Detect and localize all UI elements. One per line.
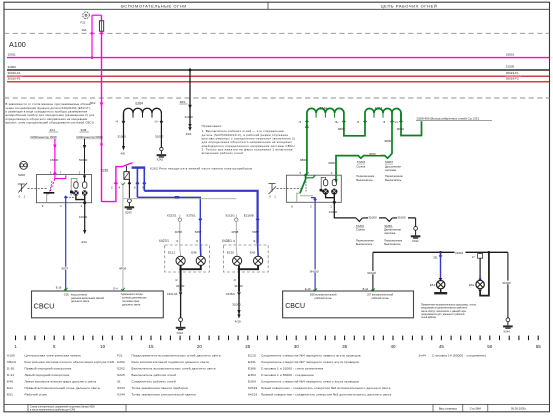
svg-text:31000: 31000	[176, 284, 185, 288]
svg-text:E51: E51	[430, 283, 436, 287]
svg-text:CBCU: CBCU	[34, 302, 55, 311]
svg-text:заслонка: заслонка	[384, 232, 396, 235]
svg-text:10A: 10A	[82, 28, 87, 32]
svg-text:Выключатель: Выключатель	[385, 178, 402, 182]
svg-text:Переключение: Переключение	[356, 239, 374, 243]
svg-text:30: 30	[294, 344, 300, 349]
svg-text:выключ. этим определяющий обор: выключ. этим определяющий оборудования с…	[6, 121, 94, 125]
ground tail X242 right	[415, 218, 417, 227]
svg-text:331: 331	[433, 255, 438, 259]
svg-text:Рабочий огонь: Рабочий огонь	[25, 393, 48, 397]
dashed separator top	[4, 32, 550, 34]
S225 blue output pin3	[311, 198, 315, 291]
junction dots	[90, 32, 94, 36]
wire 15000 (magenta)	[54, 139, 56, 174]
ground X242 lamp1	[176, 327, 186, 329]
svg-text:X331.6A: X331.6A	[167, 292, 178, 296]
svg-text:X243: X243	[117, 386, 125, 390]
svg-text:тепловых фар: тепловых фар	[122, 299, 140, 303]
svg-text:/5+: /5+	[335, 120, 339, 124]
bus 30019-F2 (red)	[7, 81, 550, 83]
lamp E51 right branch	[478, 254, 483, 259]
svg-text:15: 15	[148, 344, 154, 349]
svg-text:S186/1: S186/1	[384, 224, 393, 228]
bus 34000 (black)	[7, 69, 550, 71]
svg-text:рабочий огонь: рабочий огонь	[372, 296, 390, 300]
bottom title box	[28, 404, 126, 411]
svg-text:Стр.5М4: Стр.5М4	[470, 407, 482, 411]
svg-text:E08 вспомогательный: E08 вспомогательный	[310, 292, 337, 296]
S202 lamp returns	[76, 196, 85, 203]
svg-text:X243: X243	[125, 211, 132, 215]
svg-text:Соединитель отверстий №4 перед: Соединитель отверстий №4 переднего левог…	[261, 380, 359, 384]
svg-text:E215: E215	[248, 353, 256, 357]
fuse F21 symbol	[83, 12, 90, 19]
E264 pin /4 wire 31000	[123, 113, 125, 147]
svg-text:X244: X244	[503, 329, 510, 333]
fuse body	[99, 21, 103, 31]
svg-text:20: 20	[197, 344, 203, 349]
E644 pin /5+ link to E364 /6	[344, 121, 365, 136]
svg-text:10: 10	[100, 344, 106, 349]
svg-text:дальнего света: дальнего света	[71, 300, 90, 303]
svg-text:Стыковка 1 и 31000 - точка заз: Стыковка 1 и 31000 - точка заземления	[261, 367, 323, 371]
svg-text:9800: 9800	[338, 127, 345, 131]
wire 31000 from bus 34000 via 60/1	[189, 70, 191, 128]
switch S202 icon	[20, 161, 28, 169]
svg-text:G05: G05	[64, 292, 69, 296]
svg-text:X428/1: X428/1	[222, 239, 232, 243]
connector notch S186/1	[386, 218, 396, 222]
svg-text:E36X: E36X	[248, 380, 256, 384]
svg-text:Соединитель отверстия №4 перед: Соединитель отверстия №4 переднего право…	[261, 353, 361, 357]
svg-text:E51: E51	[7, 393, 13, 397]
svg-text:31000: 31000	[368, 216, 377, 220]
svg-text:E130: E130	[227, 250, 234, 254]
svg-text:Выключатель: Выключатель	[356, 178, 373, 182]
svg-text:9800: 9800	[300, 158, 307, 162]
svg-text:Переключение: Переключение	[384, 239, 402, 243]
svg-text:E41: E41	[7, 386, 13, 390]
svg-text:Соединитель отверстия №7 перед: Соединитель отверстия №7 переднего левог…	[261, 360, 359, 364]
svg-text:/2+: /2+	[394, 120, 398, 124]
wire magenta fuse top	[92, 15, 102, 201]
svg-text:9000: 9000	[328, 161, 335, 165]
svg-text:15001: 15001	[506, 52, 515, 56]
svg-text:31000: 31000	[185, 115, 194, 119]
connector notch S726/1	[356, 218, 366, 222]
svg-text:X242: X242	[412, 239, 419, 243]
svg-text:9800: 9800	[385, 139, 392, 143]
svg-text:X242: X242	[157, 157, 164, 161]
svg-text:4/19: 4/19	[235, 320, 241, 324]
svg-text:E366: E366	[248, 367, 256, 371]
svg-text:CBCU: CBCU	[285, 303, 305, 310]
svg-text:9K100: 9K100	[367, 271, 376, 275]
svg-text:Центральная электрическая пане: Центральная электрическая панель	[25, 353, 82, 357]
ground X243	[125, 206, 135, 208]
S225 pilot lamp 1	[324, 180, 328, 186]
svg-text:40: 40	[390, 344, 396, 349]
svg-text:E46: E46	[191, 250, 197, 254]
svg-text:A100: A100	[9, 40, 26, 49]
svg-text:31: 31	[117, 380, 121, 384]
svg-text:4/8: 4/8	[121, 152, 126, 156]
svg-text:X242: X242	[177, 331, 184, 335]
svg-text:Дроссельная: Дроссельная	[385, 165, 401, 169]
svg-text:4P08: 4P08	[231, 230, 238, 234]
svg-text:S225: S225	[117, 373, 125, 377]
svg-text:K262: K262	[117, 360, 125, 364]
svg-text:4P08: 4P08	[119, 267, 126, 271]
svg-text:3/11: 3/11	[50, 128, 56, 132]
svg-text:35: 35	[342, 344, 348, 349]
svg-text:огней кабины: огней кабины	[421, 316, 436, 319]
note text block left	[6, 102, 95, 124]
svg-text:S726/2: S726/2	[357, 160, 366, 164]
E644 pin /3 wire 9800 to S225	[306, 121, 308, 175]
wire blue upper to E216/B	[144, 191, 257, 244]
svg-text:дальнего света: дальнего света	[122, 303, 141, 306]
svg-text:Двигательная: Двигательная	[384, 228, 401, 232]
svg-text:E-16: E-16	[305, 287, 311, 291]
svg-text:A315/6: A315/6	[226, 292, 235, 296]
svg-text:X215/1: X215/1	[225, 213, 235, 217]
note text block primechaniya	[202, 124, 296, 155]
wire 31000 to ground X244	[507, 252, 509, 317]
S202 internal blue node	[64, 195, 68, 199]
S202 box	[37, 175, 92, 203]
wire arrow marker	[100, 144, 103, 149]
svg-text:Выключатель: Выключатель	[356, 242, 373, 246]
svg-text:S202: S202	[18, 173, 25, 177]
dashed separator mid	[4, 97, 550, 99]
wire blue lower to X275/1	[137, 197, 200, 244]
svg-text:К264Коннектор 50000: К264Коннектор 50000	[77, 135, 104, 139]
lamp E51 #2	[478, 279, 482, 281]
svg-text:15000: 15000	[50, 158, 59, 162]
svg-text:31000: 31000	[232, 303, 241, 307]
svg-text:31000: 31000	[155, 134, 164, 138]
X427 ground tail	[179, 292, 183, 296]
bus 15011 (magenta)	[7, 57, 550, 59]
svg-text:E216/B: E216/B	[244, 213, 254, 217]
svg-text:S726/1: S726/1	[356, 224, 365, 228]
svg-text:Предохранитель вспомогательных: Предохранитель вспомогательных огней дал…	[132, 353, 221, 357]
svg-text:заслонка: заслонка	[385, 169, 397, 172]
svg-text:рабочий огонь: рабочий огонь	[315, 296, 333, 300]
svg-text:Точка заземления электрической: Точка заземления электрической панели	[132, 393, 197, 397]
svg-text:E264: E264	[136, 101, 144, 105]
K262 magenta feed loop	[102, 163, 133, 202]
S202 pilot lamp 2	[83, 182, 87, 189]
svg-text:X244: X244	[117, 393, 125, 397]
svg-text:30019-F1: 30019-F1	[8, 71, 21, 75]
svg-text:45: 45	[439, 344, 445, 349]
svg-text:разъема включения свечей: разъема включения свечей	[71, 296, 105, 300]
svg-text:X230/4: X230/4	[455, 251, 464, 255]
svg-text:31000: 31000	[397, 216, 406, 220]
svg-text:X275/1: X275/1	[186, 213, 196, 217]
E364 pin /2+ wire to net ref	[401, 121, 422, 136]
S225 diode mark	[320, 189, 323, 192]
svg-text:9H100: 9H100	[310, 269, 319, 273]
S202 arm to pin 9	[47, 194, 50, 203]
svg-text:Стыковка 14 (50000 - соединени: Стыковка 14 (50000 - соединение)	[432, 353, 486, 357]
svg-text:Стыковка 1 и 50000 - соединени: Стыковка 1 и 50000 - соединение	[261, 373, 314, 377]
svg-text:Вид страницы: Вид страницы	[439, 407, 457, 411]
S202 contact arm (magenta)	[55, 174, 66, 179]
svg-text:E364: E364	[248, 373, 256, 377]
svg-text:D-4: D-4	[113, 286, 118, 290]
svg-text:Левая вспомогательная фара дал: Левая вспомогательная фара дальнего свет…	[25, 380, 97, 384]
svg-text:9K00: 9K00	[397, 127, 404, 131]
S225 pilot lamp 2	[332, 180, 336, 186]
svg-text:Выключатель рабочих огней: Выключатель рабочих огней	[132, 373, 177, 377]
svg-text:64219: 64219	[248, 393, 257, 397]
svg-text:05.09.2005г.: 05.09.2005г.	[511, 407, 527, 411]
S202 pilot lamp 1	[74, 182, 78, 189]
svg-text:включение рабочих огней: включение рабочих огней	[202, 151, 244, 155]
svg-text:D-21: D-21	[7, 373, 14, 377]
S202 lamp feed hook	[71, 178, 77, 195]
svg-text:E46: E46	[7, 380, 13, 384]
svg-text:Реле вспомогательной подсветки: Реле вспомогательной подсветки дальнего …	[132, 360, 210, 364]
svg-text:50: 50	[487, 344, 493, 349]
switch S225 box	[286, 175, 341, 202]
svg-text:Сдвоенного входа: Сдвоенного входа	[121, 292, 144, 296]
svg-text:4/16: 4/16	[186, 132, 192, 136]
legend	[7, 353, 486, 396]
S202 feed 50000 into box	[84, 175, 86, 182]
svg-text:S186/7: S186/7	[385, 160, 394, 164]
svg-text:31000: 31000	[79, 215, 88, 219]
svg-text:ЦЕПЬ РАБОЧИХ ОГНЕЙ: ЦЕПЬ РАБОЧИХ ОГНЕЙ	[381, 3, 438, 8]
svg-text:X323/2: X323/2	[167, 213, 177, 217]
svg-text:50000: 50000	[79, 158, 88, 162]
svg-text:J07 вспомогательный: J07 вспомогательный	[367, 292, 394, 296]
S225 lamp returns	[326, 194, 335, 202]
K262 coil ground wire	[128, 179, 130, 198]
svg-text:D-26: D-26	[7, 367, 14, 371]
svg-text:15011: 15011	[8, 52, 16, 56]
svg-text:F21: F21	[81, 21, 86, 25]
svg-text:4P08: 4P08	[175, 230, 182, 234]
note text block right	[421, 303, 476, 319]
svg-text:31000: 31000	[506, 64, 515, 68]
svg-text:31000: 31000	[234, 284, 243, 288]
K262 coil	[125, 166, 127, 172]
svg-text:A100: A100	[7, 353, 15, 357]
svg-text:К262Коннектор 15000: К262Коннектор 15000	[31, 135, 58, 139]
bus 30019-F1 (red)	[7, 75, 550, 77]
svg-text:X427/1: X427/1	[159, 239, 169, 243]
svg-text:30019-F2: 30019-F2	[8, 77, 21, 81]
wire 31000 work lamp run	[373, 251, 508, 253]
K262 contact output (blue)	[132, 166, 146, 168]
svg-text:ВСПОМОГАТЕЛЬНЫЕ ОГНИ: ВСПОМОГАТЕЛЬНЫЕ ОГНИ	[121, 3, 187, 8]
S202 diode mark	[70, 191, 73, 194]
S225 green contact arm	[300, 175, 306, 193]
control unit CBCU box 1	[32, 291, 164, 318]
wire 50000 (black)	[84, 139, 86, 174]
E364 pin /3 wire to S225 pin2	[336, 121, 392, 175]
wire 5657 S202 to CBCU	[65, 197, 67, 290]
svg-text:B-14: B-14	[363, 287, 369, 291]
S225 actuator symbol	[269, 184, 277, 195]
svg-text:Выключатель: Выключатель	[384, 242, 401, 246]
svg-text:34000: 34000	[8, 65, 17, 69]
S202 actuator symbol	[18, 183, 27, 193]
svg-text:55: 55	[536, 344, 542, 349]
svg-text:Выключатель вспомогательных ог: Выключатель вспомогательных огней дальне…	[132, 367, 216, 371]
svg-text:E331: E331	[248, 360, 256, 364]
ground X242	[157, 154, 167, 156]
lamp E51 left branch (blue)	[440, 252, 442, 278]
svg-text:25: 25	[245, 344, 251, 349]
svg-text:30019-F2: 30019-F2	[506, 77, 519, 81]
svg-text:64319: 64319	[248, 386, 257, 390]
ruler ticks	[16, 336, 539, 341]
svg-text:30019-F1: 30019-F1	[506, 71, 519, 75]
svg-text:S202: S202	[117, 367, 125, 371]
svg-text:Правый поворотник - соединител: Правый поворотник - соединитель отверсти…	[261, 393, 391, 397]
svg-text:E121: E121	[168, 250, 175, 254]
svg-text:9000: 9000	[369, 152, 376, 156]
S225 arm to pin 9	[297, 193, 300, 202]
svg-text:Соединитель рабочих огней: Соединитель рабочих огней	[132, 380, 176, 384]
svg-text:E51: E51	[469, 283, 475, 287]
svg-text:31000: 31000	[118, 134, 127, 138]
svg-text:5657: 5657	[195, 230, 202, 234]
svg-text:4/12: 4/12	[81, 240, 87, 244]
svg-text:31000: 31000	[329, 210, 338, 214]
wire 9K100	[372, 252, 374, 290]
svg-text:3s44: 3s44	[419, 353, 426, 357]
E264 pin /2+ wire to ground	[160, 113, 162, 147]
svg-text:Примечания:: Примечания:	[202, 124, 223, 128]
ground below E51 #1	[434, 292, 447, 294]
svg-text:K262: K262	[101, 169, 109, 173]
S225 lamp feed hook	[321, 177, 325, 188]
svg-text:31000: 31000	[502, 281, 511, 285]
svg-text:E-16: E-16	[56, 286, 62, 290]
svg-text:Левый передний поворотник: Левый передний поворотник	[25, 373, 70, 377]
svg-text:в части назначения устройства: в части назначения устройства для CAN	[30, 409, 75, 412]
svg-text:Левый поворотник - соединитель: Левый поворотник - соединитель отверстия…	[261, 386, 391, 390]
svg-text:/2+: /2+	[155, 120, 159, 124]
wire gray branch 4P08	[123, 198, 236, 200]
svg-text:60/1: 60/1	[180, 100, 186, 104]
svg-text:Контрольная система полного об: Контрольная система полного обеспечения …	[25, 360, 115, 364]
svg-text:Стрела: Стрела	[356, 228, 365, 232]
S225 pin 2 feed arrow	[335, 175, 337, 181]
svg-text:F21: F21	[117, 353, 123, 357]
svg-text:Правый вспомогательный огонь д: Правый вспомогательный огонь дальнего св…	[25, 386, 100, 390]
svg-text:Переключение: Переключение	[385, 174, 403, 178]
svg-text:K262 Реле находится в нижней ч: K262 Реле находится в нижней части панел…	[150, 166, 252, 170]
K262 pin 4 gray wire 4P08	[122, 183, 125, 185]
svg-text:Стрела: Стрела	[356, 165, 365, 169]
lamp E51 #1	[439, 278, 443, 281]
wire 31000 S202 ground	[84, 203, 86, 231]
svg-text:5657: 5657	[62, 267, 69, 271]
svg-text:5657: 5657	[252, 230, 259, 234]
svg-text:S189-456 (Выход габаритных огн: S189-456 (Выход габаритных огней) Са. 2/…	[417, 116, 480, 120]
svg-text:3/38: 3/38	[81, 128, 87, 132]
svg-text:E41: E41	[250, 250, 256, 254]
svg-text:Правый передний поворотник: Правый передний поворотник	[25, 367, 72, 371]
svg-text:CBCU: CBCU	[7, 360, 16, 364]
X428 ground tail	[237, 292, 241, 296]
control unit CBCU box 2	[283, 291, 414, 318]
svg-text:Точка заземления панели прибор: Точка заземления панели приборов	[132, 386, 189, 390]
wire 31000 S225 ground run	[334, 202, 415, 218]
svg-text:Переключение: Переключение	[356, 174, 374, 178]
